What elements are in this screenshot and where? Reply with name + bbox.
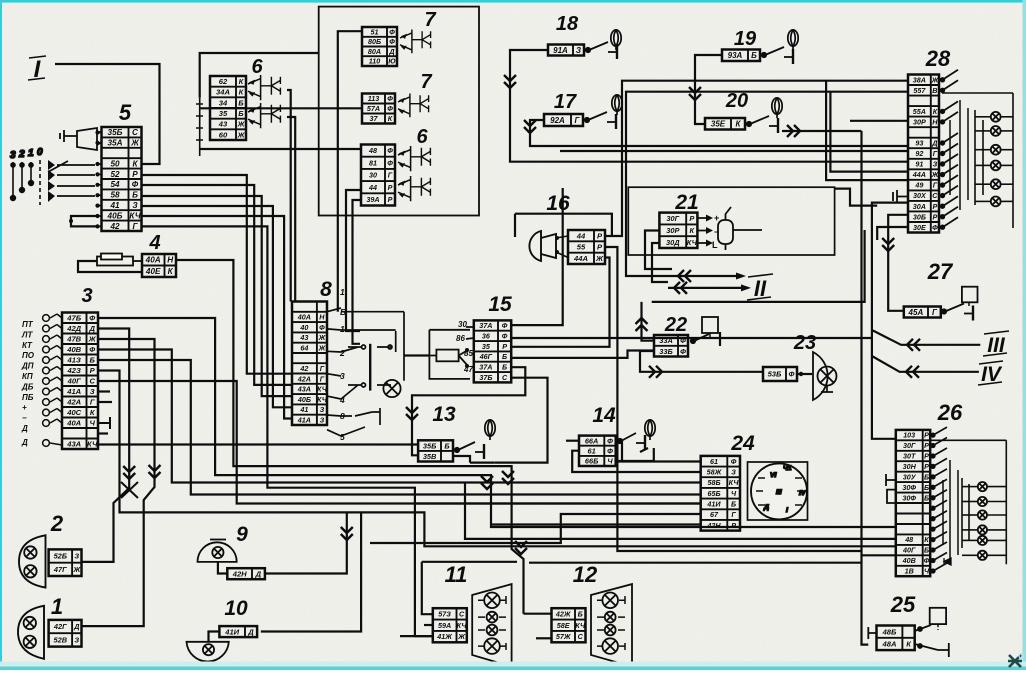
- svg-text:66А: 66А: [585, 436, 599, 445]
- svg-text:2: 2: [339, 348, 345, 358]
- wire block20 output to feeder: [782, 130, 862, 132]
- lamp 1a: [24, 617, 36, 629]
- lamp 2 of block 26: [978, 497, 987, 506]
- svg-text:З: З: [132, 201, 138, 210]
- switch lever 13: [455, 442, 484, 459]
- svg-text:Ф: Ф: [932, 223, 938, 232]
- switch lever 27: [942, 304, 973, 321]
- chevron chain A: [123, 466, 135, 479]
- svg-text:92А: 92А: [550, 116, 565, 125]
- svg-text:Г: Г: [388, 171, 393, 180]
- chevron on B3: [481, 476, 493, 489]
- svg-text:Д: Д: [388, 47, 394, 56]
- svg-text:93А: 93А: [728, 51, 743, 60]
- wire block14 r2 to block24 r2: [572, 451, 701, 472]
- svg-text:62: 62: [219, 77, 228, 86]
- svg-text:Р: Р: [731, 521, 736, 530]
- svg-text:Д: Д: [255, 569, 262, 578]
- svg-text:41: 41: [299, 405, 308, 414]
- wire block15 r1 up to block21 box: [511, 188, 563, 325]
- wire block28 r11 to block26 feeder: [872, 203, 908, 439]
- svg-text:К: К: [933, 107, 938, 116]
- dome lamp 10: [187, 642, 229, 662]
- svg-text:44А: 44А: [912, 170, 926, 179]
- svg-text:42З: 42З: [67, 366, 81, 375]
- svg-text:З: З: [320, 405, 325, 414]
- wire into block11 r1: [422, 562, 517, 614]
- wire block22 riser to frame: [642, 302, 655, 341]
- svg-text:Ч: Ч: [731, 489, 737, 498]
- bus y151 to block28: [560, 150, 908, 152]
- svg-text:25: 25: [890, 592, 916, 617]
- svg-text:+: +: [714, 213, 719, 223]
- wire inside box from 7a r1 down: [338, 31, 362, 189]
- svg-text:Ф: Ф: [607, 436, 613, 445]
- svg-text:4: 4: [148, 232, 160, 254]
- switch block 18: [548, 45, 584, 56]
- svg-text:Б: Б: [132, 191, 138, 200]
- wire block26 r13 from feeder: [862, 554, 896, 556]
- svg-text:Ж: Ж: [595, 254, 604, 263]
- cyan border left: [0, 0, 2, 670]
- svg-text:49: 49: [914, 181, 923, 190]
- svg-text:34А: 34А: [216, 88, 230, 97]
- svg-text:ДБ: ДБ: [21, 382, 34, 391]
- wire IV arrow line: [872, 356, 979, 372]
- svg-text:З: З: [731, 468, 736, 477]
- svg-text:19: 19: [734, 28, 757, 50]
- switch lever 22: [691, 332, 720, 346]
- svg-text:КЧ: КЧ: [317, 395, 328, 404]
- svg-text:81: 81: [369, 158, 377, 167]
- svg-text:К: К: [924, 535, 929, 544]
- svg-text:59А: 59А: [438, 621, 451, 630]
- svg-text:Р: Р: [924, 452, 929, 461]
- chevron down block27 feeder: [882, 238, 894, 251]
- connector block 9: [227, 568, 265, 579]
- svg-text:66Б: 66Б: [585, 457, 598, 466]
- headlamp 11 b: [487, 612, 498, 623]
- wire 6b r4 down to block8 pins: [346, 190, 361, 331]
- connector block 12: [552, 608, 586, 642]
- svg-text:36: 36: [482, 332, 491, 341]
- svg-text:40: 40: [299, 323, 308, 332]
- svg-text:40В: 40В: [66, 345, 81, 354]
- indicator lamp 20: [772, 98, 782, 118]
- svg-text:43А: 43А: [66, 440, 81, 449]
- svg-text:Б: Б: [731, 500, 736, 509]
- svg-text:Б: Б: [502, 363, 507, 372]
- svg-text:5: 5: [119, 100, 132, 125]
- indicator lamp 17: [612, 95, 622, 115]
- connector block 5: [102, 127, 142, 231]
- contact slashes block 26: [931, 427, 958, 573]
- wire y146 into block6b: [200, 148, 361, 150]
- svg-text:Ф: Ф: [680, 347, 686, 356]
- svg-text:Ф: Ф: [387, 104, 393, 113]
- svg-text:58Ж: 58Ж: [707, 468, 722, 477]
- svg-text:3: 3: [81, 285, 92, 307]
- svg-text:Ф: Ф: [607, 447, 613, 456]
- bus block3 r7 to block24 r5: [98, 381, 701, 504]
- wire block15 r4 to block22: [511, 351, 654, 358]
- svg-text:7: 7: [420, 71, 432, 93]
- wire block14 r1 stub: [566, 440, 579, 442]
- svg-text:110: 110: [369, 57, 380, 66]
- svg-text:40А: 40А: [297, 313, 311, 322]
- wire block28 r12 to block27 feeder: [888, 215, 908, 311]
- bus B1 block3 r13 to block13: [98, 443, 418, 445]
- ignition switch symbol at block 5: [60, 128, 102, 150]
- svg-text:0: 0: [37, 147, 43, 158]
- svg-text:Ж: Ж: [88, 335, 97, 344]
- svg-text:47Б: 47Б: [66, 314, 81, 323]
- svg-text:55А: 55А: [913, 107, 926, 116]
- svg-text:Б: Б: [238, 98, 244, 107]
- control square block 22: [702, 317, 718, 333]
- svg-text:−: −: [714, 227, 719, 237]
- svg-text:Р: Р: [502, 342, 507, 351]
- wire block21 r3 curve to II lower: [652, 243, 668, 282]
- svg-text:Р: Р: [924, 441, 929, 450]
- svg-text:42: 42: [299, 364, 308, 373]
- lamp 1 of block 28: [991, 112, 1001, 122]
- svg-text:ПБ: ПБ: [22, 393, 34, 402]
- svg-text:30Р: 30Р: [666, 226, 679, 235]
- svg-text:Г: Г: [933, 149, 938, 158]
- chain B block3 r3 to lamp1: [82, 339, 155, 626]
- switch block 13: [418, 440, 453, 461]
- lamp 3 of block 26: [978, 510, 987, 519]
- lamp cluster block 26: [896, 430, 930, 576]
- svg-text:103: 103: [903, 431, 915, 440]
- svg-text:23: 23: [793, 332, 816, 354]
- frame around II area: [652, 230, 865, 302]
- relay connector block 21: [659, 213, 697, 248]
- control square block 25: [930, 608, 946, 624]
- svg-text:28: 28: [925, 46, 951, 71]
- svg-text:Ф: Ф: [132, 180, 139, 189]
- svg-text:КТ: КТ: [22, 341, 33, 350]
- bracket block 26 rows 6-7: [887, 490, 896, 503]
- svg-text:Ф: Ф: [89, 345, 95, 354]
- distributor circle block 24: [751, 463, 807, 519]
- lamp 4 of block 26: [978, 525, 987, 534]
- cyan border bottom: [0, 662, 1026, 671]
- svg-text:30Т: 30Т: [903, 452, 916, 461]
- wire block5 r6 to block8 42А: [142, 185, 293, 385]
- lamp 9: [212, 547, 223, 558]
- line II upper: [672, 275, 743, 277]
- svg-text:57Ж: 57Ж: [556, 632, 571, 641]
- tick contacts left of block6: [196, 98, 203, 156]
- svg-text:30: 30: [369, 171, 377, 180]
- bus B3 block3 r1 to block26: [98, 318, 896, 527]
- headlight housing 11: [472, 584, 511, 667]
- switch lever 18: [586, 42, 617, 59]
- svg-text:VI: VI: [770, 472, 777, 479]
- wire fuse loop to 40Е: [78, 261, 142, 272]
- svg-text:10: 10: [224, 597, 248, 620]
- svg-text:Д: Д: [247, 627, 254, 636]
- svg-text:З: З: [74, 636, 79, 645]
- svg-text:35В: 35В: [423, 452, 437, 461]
- switch lever 19: [762, 47, 793, 64]
- svg-text:54: 54: [110, 180, 120, 189]
- svg-text:30Ф: 30Ф: [902, 483, 916, 492]
- headlight housing 12: [591, 584, 632, 667]
- wire block17 to bus y146: [530, 120, 908, 146]
- wire block28 r1 from horn chain: [605, 81, 908, 236]
- lamp 2a: [24, 546, 36, 558]
- svg-text:55: 55: [577, 243, 586, 252]
- terminator bar row 40А: [98, 417, 110, 429]
- svg-text:80Б: 80Б: [368, 37, 381, 46]
- svg-text:ПО: ПО: [22, 351, 35, 360]
- svg-text:Б: Б: [90, 356, 96, 365]
- svg-text:Р: Р: [132, 170, 138, 179]
- svg-text:30Х: 30Х: [913, 191, 927, 200]
- svg-text:91: 91: [915, 160, 923, 169]
- headlamp 11 c: [487, 625, 498, 636]
- svg-text:44: 44: [576, 231, 586, 240]
- svg-text:С: С: [89, 377, 95, 386]
- terminal bank 3 2 1 0: [10, 147, 55, 205]
- svg-text:9: 9: [236, 523, 248, 546]
- chain A block3 r2 to lamp2: [82, 329, 130, 562]
- wire block18 to bus y161: [510, 50, 908, 162]
- svg-text:27: 27: [927, 259, 954, 284]
- bus B4 block3 r4 to block24 r3: [98, 350, 701, 483]
- wire block14 r3-row to block24 r1: [616, 441, 701, 462]
- bus B6 block5 r10 staircase to block11 r3: [142, 226, 433, 636]
- svg-text:С: С: [578, 632, 584, 641]
- svg-text:57А: 57А: [367, 104, 380, 113]
- distributor pins block 24: [756, 465, 807, 514]
- wire dome9 to table9: [218, 562, 227, 574]
- connector block 23: [763, 367, 797, 381]
- svg-text:Б: Б: [924, 546, 929, 555]
- svg-text:48А: 48А: [882, 640, 897, 649]
- relay coil block 15: [429, 327, 473, 379]
- svg-text:41З: 41З: [67, 356, 81, 365]
- arrowheads II lines: [736, 273, 751, 292]
- svg-text:47В: 47В: [66, 335, 81, 344]
- svg-text:33Б: 33Б: [659, 347, 672, 356]
- svg-text:Ж: Ж: [318, 343, 326, 352]
- chevron up block22 riser: [636, 318, 648, 331]
- wire node I to block 5 row 50K: [55, 64, 160, 164]
- svg-text:Ф: Ф: [319, 323, 325, 332]
- stub block3 r9: [98, 401, 112, 403]
- svg-text:Р: Р: [388, 195, 393, 204]
- svg-text:30Н: 30Н: [903, 462, 917, 471]
- lamp 5 of block 28: [991, 179, 1001, 189]
- indicator lamp 13: [485, 420, 495, 440]
- svg-text:Б: Б: [238, 109, 244, 118]
- svg-text:42Г: 42Г: [53, 622, 67, 631]
- svg-text:Ч: Ч: [607, 457, 613, 466]
- svg-text:−: −: [22, 414, 27, 423]
- svg-text:91А: 91А: [553, 46, 568, 55]
- contact slashes block 28: [941, 70, 968, 229]
- svg-text:1: 1: [51, 594, 63, 619]
- svg-text:К: К: [388, 114, 393, 123]
- lamp housing 23: [813, 352, 828, 400]
- connector block 1: [49, 620, 82, 647]
- svg-text:З: З: [320, 415, 325, 424]
- svg-text:Ю: Ю: [388, 57, 396, 66]
- dome lamp 9: [198, 542, 237, 562]
- wire block28 r13 stub: [877, 227, 908, 240]
- chevron chain B: [149, 465, 161, 478]
- svg-text:Б: Б: [751, 51, 757, 60]
- svg-text:8: 8: [320, 278, 332, 301]
- svg-text:ПТ: ПТ: [22, 320, 34, 329]
- chevron III: [907, 339, 920, 351]
- wire block5 r8 to block8 40Б: [142, 206, 293, 407]
- svg-text:L: L: [712, 240, 718, 250]
- svg-text:18: 18: [556, 13, 579, 35]
- wire 6a to vertical 295: [287, 117, 295, 302]
- connector block 11: [433, 608, 467, 642]
- svg-text:КЧ: КЧ: [87, 440, 98, 449]
- bus B4 branch to block26 r11: [465, 483, 896, 539]
- svg-text:93: 93: [915, 139, 923, 148]
- svg-text:З: З: [74, 552, 79, 561]
- svg-text:Г: Г: [731, 510, 736, 519]
- svg-text:Б: Б: [924, 473, 929, 482]
- svg-text:1: 1: [340, 287, 345, 297]
- svg-text:Б: Б: [924, 493, 929, 502]
- svg-text:37: 37: [370, 114, 379, 123]
- cyan border right: [1023, 0, 1026, 670]
- svg-text:Н: Н: [319, 313, 325, 322]
- pin labels block 15: [456, 320, 473, 374]
- contact arrows into block 5: [96, 133, 102, 227]
- indicator lamp 19: [788, 30, 798, 50]
- svg-text:41: 41: [109, 201, 120, 210]
- svg-text:ЛТ: ЛТ: [21, 330, 33, 339]
- distributor frame block 24: [748, 462, 808, 520]
- wire bottom bus y562: [529, 562, 862, 564]
- svg-text:Ч1: Ч1: [783, 465, 792, 472]
- switch block 19: [722, 50, 760, 62]
- svg-text:30Ф: 30Ф: [902, 493, 916, 502]
- svg-text:46Г: 46Г: [479, 352, 493, 361]
- svg-text:48: 48: [904, 535, 913, 544]
- svg-text:39А: 39А: [366, 195, 379, 204]
- svg-text:35Е: 35Е: [711, 120, 726, 129]
- svg-text:30Е: 30Е: [913, 223, 926, 232]
- switch lever 17: [585, 112, 616, 129]
- svg-text:35Б: 35Б: [108, 128, 123, 137]
- svg-text:80А: 80А: [368, 47, 381, 56]
- svg-text:Г: Г: [90, 398, 95, 407]
- switch block 20: [705, 118, 745, 130]
- wire into block12 row1: [524, 613, 552, 615]
- svg-text:Р: Р: [388, 183, 393, 192]
- lever wires into block 5: [48, 161, 95, 196]
- svg-text:20: 20: [725, 90, 748, 112]
- svg-text:Ж: Ж: [931, 170, 939, 179]
- svg-text:З: З: [90, 387, 95, 396]
- svg-text:Ф: Ф: [924, 556, 930, 565]
- svg-text:38А: 38А: [913, 75, 926, 84]
- svg-text:42Н: 42Н: [232, 569, 247, 578]
- chevron lamp9 riser: [341, 527, 353, 540]
- connector block 2: [49, 549, 82, 576]
- svg-text:Д: Д: [88, 324, 95, 333]
- instrument lamp block 8: [383, 380, 400, 397]
- svg-text:2: 2: [18, 149, 25, 160]
- wire block15 r5 to block13 riser: [412, 367, 525, 455]
- svg-text:51: 51: [371, 28, 379, 37]
- chevron to 23: [649, 366, 662, 378]
- headlamp 12 a: [602, 593, 618, 609]
- lamp 2 of block 28: [991, 126, 1001, 136]
- lamp 2b: [24, 565, 36, 577]
- watermark asterisk: [1008, 654, 1024, 667]
- transistor symbol 7a: [400, 30, 431, 54]
- lamp 23: [818, 367, 837, 386]
- svg-text:30У: 30У: [903, 473, 917, 482]
- svg-text:Ф: Ф: [389, 37, 395, 46]
- svg-text:6: 6: [416, 126, 428, 148]
- svg-text:58Е: 58Е: [557, 621, 570, 630]
- svg-text:67: 67: [710, 510, 719, 519]
- svg-text:113: 113: [368, 94, 379, 103]
- svg-text:30Г: 30Г: [666, 214, 679, 223]
- wire block22 to lamp23 bus: [640, 351, 763, 372]
- transistor pair symbol 6a-1: [248, 75, 280, 100]
- lamp 1 of block 26: [978, 482, 987, 491]
- chevron block19 drop: [689, 87, 701, 100]
- svg-text:Д: Д: [73, 622, 80, 631]
- svg-text:Ж: Ж: [236, 120, 245, 129]
- indicator lamp 14: [645, 420, 655, 440]
- svg-text:22: 22: [664, 314, 687, 336]
- svg-text:12: 12: [573, 562, 598, 587]
- svg-text:24: 24: [730, 432, 755, 455]
- svg-text:41А: 41А: [297, 415, 311, 424]
- wire block5 r5 to block8 42: [142, 175, 293, 374]
- chevron block17 drop: [524, 120, 536, 133]
- svg-text:Ф: Ф: [387, 146, 393, 155]
- svg-text:21: 21: [674, 191, 698, 214]
- ground bracket block 25: [868, 627, 876, 639]
- svg-text:Г: Г: [320, 364, 325, 373]
- wire block14 r3 loop: [616, 448, 654, 461]
- svg-text:1: 1: [340, 324, 345, 334]
- svg-text:16: 16: [546, 192, 570, 215]
- headlamp 11 a: [484, 593, 500, 609]
- wire block28 r2 long chain: [626, 92, 908, 276]
- svg-text:6: 6: [251, 56, 263, 78]
- svg-text:50: 50: [110, 159, 120, 168]
- svg-text:Б: Б: [444, 441, 449, 450]
- svg-text:47Г: 47Г: [53, 565, 67, 574]
- svg-text:42Ж: 42Ж: [555, 610, 571, 619]
- wire block12 r3 long: [400, 635, 433, 637]
- svg-text:Б: Б: [924, 483, 929, 492]
- chevron II upper: [678, 270, 691, 282]
- svg-text:В: В: [932, 86, 937, 95]
- svg-text:30А: 30А: [913, 202, 926, 211]
- svg-text:К: К: [690, 226, 695, 235]
- transistor symbol 6b-2: [398, 176, 430, 201]
- svg-text:III: III: [776, 489, 782, 496]
